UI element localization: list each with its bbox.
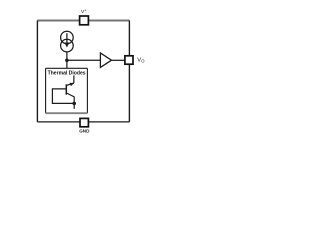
bottom lead vertical [73,97,75,109]
thermal diodes box [46,68,88,113]
collector lead (top vertical) [73,75,75,83]
node junction dot on loop [72,102,76,106]
current source I1 [61,31,74,52]
op-amp buffer U1 [100,53,111,67]
collector diagonal (bottom) [66,93,74,97]
svg-text:Thermal Diodes: Thermal Diodes [48,70,86,76]
transistor arrowhead [70,83,74,86]
base bar [65,84,67,94]
emitter diagonal (arrow up-right) [66,83,74,85]
terminal V+ [80,16,89,25]
terminal GND [80,118,88,126]
current source arrowhead [64,43,69,48]
terminal VO [125,56,133,64]
wire current source to junction and into thermal box [66,52,68,68]
outer block boundary box [37,20,129,121]
base-to-collector wire loop [52,89,74,104]
node junction dot [65,59,69,63]
transistor Q1 (diode-connected, emitter up) [66,75,74,108]
wire buffer output to output terminal [112,59,126,61]
svg-text:GND: GND [79,128,90,133]
wire junction to buffer input [67,59,101,61]
